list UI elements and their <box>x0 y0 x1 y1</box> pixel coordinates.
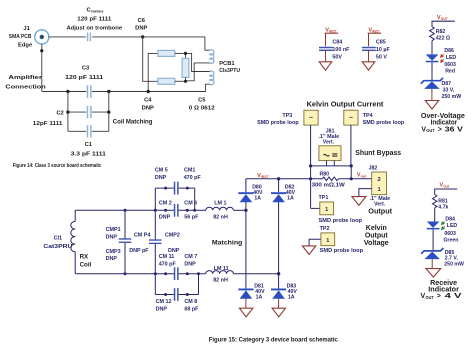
capacitor C3 120pF <box>65 66 104 98</box>
svg-text:36 V: 36 V <box>445 127 463 134</box>
svg-text:470 pF: 470 pF <box>159 261 177 267</box>
inductor CI1 RX coil <box>43 210 75 273</box>
svg-text:Coil Matching: Coil Matching <box>113 118 153 125</box>
label C4 DNP <box>142 98 154 112</box>
svg-text:120 pF 1111: 120 pF 1111 <box>65 75 104 81</box>
wire top junction crossover to lower winding <box>186 53 210 71</box>
svg-text:250 mW: 250 mW <box>442 94 462 100</box>
svg-text:C4: C4 <box>144 98 152 104</box>
svg-text:D87: D87 <box>442 81 452 87</box>
svg-text:50 V: 50 V <box>376 54 387 60</box>
label PCB1 Cls3PTU <box>219 61 240 74</box>
svg-text:D86: D86 <box>444 48 454 54</box>
wire J1 to Ctrombone <box>48 36 85 38</box>
capacitor Ctrombone 120pF adjust on trombone <box>67 7 123 41</box>
svg-text:–: – <box>309 115 313 122</box>
wire R81 to D84 <box>434 208 436 222</box>
capacitor C85 10uF 50V <box>362 39 390 61</box>
svg-text:DNP pF: DNP pF <box>129 248 149 254</box>
svg-text:C2: C2 <box>56 110 63 116</box>
svg-text:SMD probe loop: SMD probe loop <box>363 120 405 126</box>
svg-text:TP3: TP3 <box>282 113 292 119</box>
ground below C85 <box>362 62 375 70</box>
svg-text:Kelvin: Kelvin <box>366 225 387 232</box>
svg-text:Amplifier: Amplifier <box>8 75 43 81</box>
label Coil Matching <box>113 118 153 125</box>
svg-text:CM 8: CM 8 <box>184 299 197 305</box>
svg-text:DNP: DNP <box>155 175 167 181</box>
wire TP4 to shunt right node <box>350 125 352 166</box>
svg-text:J1: J1 <box>23 26 30 32</box>
svg-text:Green: Green <box>443 237 458 243</box>
caption Figure 14 <box>13 163 102 169</box>
wire R82 to D86 <box>431 41 433 55</box>
svg-text:DNP: DNP <box>159 214 171 220</box>
svg-text:TP4: TP4 <box>363 113 373 119</box>
wire C2/C1 left leg <box>67 92 69 132</box>
diode D86 LED 0603 Red <box>426 48 457 75</box>
svg-text:R82: R82 <box>436 29 446 35</box>
svg-text:C84: C84 <box>332 39 342 45</box>
svg-text:Edge: Edge <box>18 42 33 48</box>
wire D86 to D87 <box>431 62 433 80</box>
svg-text:RECT: RECT <box>261 175 269 179</box>
wire rx top <box>75 209 206 211</box>
svg-text:>: > <box>438 127 442 134</box>
svg-text:CM P4: CM P4 <box>134 232 150 238</box>
junction rail C4 <box>147 90 150 93</box>
svg-text:out: out <box>444 185 450 189</box>
svg-text:1: 1 <box>325 207 328 213</box>
svg-text:DNP: DNP <box>156 307 168 313</box>
testpoint TP2 SMD probe loop <box>302 226 363 255</box>
wire C2/C1 right leg <box>108 92 110 132</box>
label Kelvin Output Voltage <box>364 225 389 247</box>
svg-text:J82: J82 <box>369 165 378 171</box>
label Receive Indicator <box>421 280 463 300</box>
wire TP3 to shunt left node <box>310 125 312 166</box>
label Over-Voltage Indicator <box>421 113 465 134</box>
connector J82 output header <box>369 165 391 207</box>
svg-text:DNP: DNP <box>106 234 118 240</box>
resistor balun top <box>158 50 186 56</box>
wire rx bottom after LM11 <box>233 273 278 275</box>
svg-text:DNP: DNP <box>135 26 147 32</box>
svg-text:300 mΩ,1W: 300 mΩ,1W <box>312 183 345 189</box>
wire upper winding bottom crossover <box>186 63 210 81</box>
svg-text:1A: 1A <box>254 195 261 201</box>
svg-text:4.7k: 4.7k <box>438 205 448 211</box>
wire C6 node down to lower balun resistor <box>143 37 158 81</box>
svg-text:LED: LED <box>447 223 458 229</box>
junction balun bottom <box>184 80 187 83</box>
junction top wire to D80/D81 <box>244 209 247 212</box>
svg-text:68 pF: 68 pF <box>184 307 199 313</box>
svg-text:Red: Red <box>445 69 455 75</box>
svg-text:D84: D84 <box>445 217 455 223</box>
testpoint TP1 SMD probe loop <box>311 179 363 224</box>
capacitor C2 12pF rung <box>33 106 111 127</box>
capacitor CM12/CM8 lower rung <box>155 274 199 313</box>
capacitor CM11/CM7 on bottom wire <box>159 254 198 280</box>
svg-text:Output: Output <box>368 208 392 215</box>
diode D82 40V 1A <box>271 177 296 274</box>
svg-text:CI1: CI1 <box>54 236 62 242</box>
svg-text:250 mW: 250 mW <box>444 262 464 268</box>
svg-text:CM 2: CM 2 <box>159 200 172 206</box>
svg-text:out: out <box>361 174 367 178</box>
svg-text:422 Ω: 422 Ω <box>436 35 450 41</box>
svg-text:RX: RX <box>80 253 89 260</box>
svg-text:Voltage: Voltage <box>364 240 389 247</box>
svg-text:C5: C5 <box>198 98 206 104</box>
svg-text:LM 11: LM 11 <box>214 266 229 272</box>
svg-text:1A: 1A <box>256 295 263 301</box>
svg-text:Cat3PRU: Cat3PRU <box>43 244 72 250</box>
svg-text:Vert.: Vert. <box>374 201 386 207</box>
svg-text:100 nF: 100 nF <box>332 47 350 53</box>
svg-text:OUT: OUT <box>426 128 435 133</box>
svg-text:Cls3PTU: Cls3PTU <box>219 68 240 74</box>
svg-text:C85: C85 <box>376 39 386 45</box>
svg-text:OUT: OUT <box>441 17 448 21</box>
wire J82 pin1 to ground <box>352 189 372 206</box>
svg-text:–: – <box>349 115 353 122</box>
svg-text:Connection: Connection <box>5 84 46 90</box>
svg-text:Vert.: Vert. <box>323 139 335 145</box>
label Amplifier Connection <box>5 75 46 91</box>
svg-text:Kelvin Output Current: Kelvin Output Current <box>307 102 384 109</box>
resistor R82 422 Ohm <box>430 27 450 42</box>
svg-text:Output: Output <box>365 233 389 240</box>
svg-text:12pF 1111: 12pF 1111 <box>33 121 63 127</box>
svg-text:Coil: Coil <box>80 262 92 269</box>
svg-text:10 µF: 10 µF <box>376 47 391 53</box>
ground below C84 <box>319 62 332 70</box>
testpoint TP4 SMD probe loop <box>344 110 405 126</box>
svg-text:DNP: DNP <box>106 256 118 262</box>
svg-text:SMD probe loop: SMD probe loop <box>320 248 364 254</box>
diode D81 40V 1A <box>238 210 265 300</box>
junction bottom wire to D82/D83 <box>277 272 280 275</box>
connector J1 (SMA PCB edge) <box>9 26 49 48</box>
zener D85 2.7V 250mW <box>421 248 464 268</box>
svg-text:LED: LED <box>446 55 457 61</box>
svg-text:82 nH: 82 nH <box>213 214 228 220</box>
svg-text:PCB1: PCB1 <box>219 61 235 67</box>
svg-text:SMA PCB: SMA PCB <box>9 34 32 40</box>
svg-text:CMP3: CMP3 <box>106 249 121 255</box>
resistor balun vertical <box>182 53 189 81</box>
svg-text:0603: 0603 <box>444 62 456 68</box>
wire C4 branch vertical <box>148 53 158 91</box>
svg-text:Shunt Bypass: Shunt Bypass <box>355 150 401 157</box>
connector J81 shunt bypass header <box>318 128 341 166</box>
junction rail left of C2 network <box>66 90 69 93</box>
wire rx top after LM1 <box>233 209 246 211</box>
svg-text:SMD probe loop: SMD probe loop <box>319 218 363 224</box>
svg-text:CM 5: CM 5 <box>155 167 168 173</box>
main rail with C3 <box>42 91 206 93</box>
wire C6 node to coil PCB1 top <box>143 37 210 50</box>
label Kelvin Output Current <box>307 102 384 109</box>
svg-text:DNP: DNP <box>168 248 180 254</box>
capacitor C1 3.3pF rung <box>68 125 109 157</box>
svg-text:CM1: CM1 <box>184 167 195 173</box>
coil PCB1 upper winding <box>210 50 214 64</box>
svg-text:0603: 0603 <box>444 231 456 237</box>
svg-text:trombone: trombone <box>91 10 103 14</box>
node C6 DNP junction <box>135 18 147 38</box>
inductor LM11 82nH <box>206 266 234 283</box>
svg-text:OUT: OUT <box>425 295 434 300</box>
wire Ctrombone to node C6 <box>92 36 143 38</box>
label RX Coil <box>80 253 92 268</box>
svg-text:C1: C1 <box>85 142 93 148</box>
svg-text:2: 2 <box>377 177 380 183</box>
svg-text:120 pF 1111: 120 pF 1111 <box>77 17 112 23</box>
node Vrect rail <box>246 173 372 179</box>
svg-text:0 Ω 0612: 0 Ω 0612 <box>189 105 215 111</box>
ground over-voltage <box>425 89 438 109</box>
capacitor CM2/CM6 on top wire <box>159 200 199 220</box>
svg-text:1A: 1A <box>287 195 294 201</box>
svg-text:CMP2: CMP2 <box>165 232 180 238</box>
net Vout label at J82 <box>357 172 367 178</box>
svg-text:56 pF: 56 pF <box>184 214 199 220</box>
svg-text:50V: 50V <box>332 54 342 60</box>
svg-text:CMP1: CMP1 <box>106 227 121 233</box>
capacitor CMP1/CMP3 branch <box>106 209 132 275</box>
junction top wire dots <box>164 209 196 212</box>
wire J1 down to main rail <box>41 44 43 92</box>
svg-text:DNP: DNP <box>184 261 196 267</box>
caption Figure 15 <box>209 336 338 343</box>
junction below J1 <box>40 49 43 52</box>
junction rail right of C2 network <box>107 90 110 93</box>
svg-text:SMD probe loop: SMD probe loop <box>257 120 299 126</box>
net Vout flag over-voltage <box>432 15 455 27</box>
svg-text:CM 7: CM 7 <box>184 254 197 260</box>
net Vrect flag for C84 <box>325 27 339 46</box>
diode D84 LED 0603 Green <box>427 217 459 244</box>
capacitor CMP4/CMP2 branch <box>129 188 180 294</box>
svg-text:4 V: 4 V <box>445 293 462 300</box>
svg-text:LM 1: LM 1 <box>214 201 226 207</box>
ground below D83 <box>272 298 285 317</box>
svg-text:470 pF: 470 pF <box>184 175 202 181</box>
ground below D81 <box>239 298 252 317</box>
svg-text:Figure 14: Class 3 source boar: Figure 14: Class 3 source board schemati… <box>13 163 102 169</box>
diode D83 40V 1A <box>271 274 297 301</box>
net Vout flag receive <box>434 183 457 195</box>
label Output <box>368 208 392 215</box>
svg-text:TP1: TP1 <box>319 195 329 201</box>
svg-text:Figure 15: Category 3 device b: Figure 15: Category 3 device board schem… <box>209 336 338 343</box>
wire rx bottom <box>75 273 206 275</box>
svg-text:1: 1 <box>326 238 329 244</box>
svg-text:33 V,: 33 V, <box>443 87 455 93</box>
svg-text:DNP: DNP <box>142 105 154 111</box>
svg-text:CM 11: CM 11 <box>159 254 175 260</box>
svg-text:R80: R80 <box>320 172 330 178</box>
net Vrect flag for C85 <box>368 27 382 46</box>
svg-text:C3: C3 <box>82 66 90 72</box>
diode D80 40V 1A <box>238 179 263 211</box>
resistor R81 4.7k <box>433 195 449 211</box>
svg-text:CM 12: CM 12 <box>156 299 172 305</box>
zener D87 33V 250mW <box>421 78 461 100</box>
svg-text:Matching: Matching <box>212 239 242 246</box>
ground receive <box>426 259 441 277</box>
wire shunt bypass top <box>309 164 353 180</box>
svg-text:Adjust on trombone: Adjust on trombone <box>67 25 123 31</box>
svg-text:3.3 pF 1111: 3.3 pF 1111 <box>71 151 107 157</box>
svg-text:TP2: TP2 <box>320 226 330 232</box>
coil PCB1 lower winding <box>210 71 214 85</box>
capacitor CM5/CM1 upper rung <box>155 167 202 210</box>
svg-text:82 nH: 82 nH <box>213 277 228 283</box>
resistor R80 300mOhm 1W <box>312 172 345 189</box>
svg-text:C6: C6 <box>138 18 146 24</box>
svg-text:1A: 1A <box>288 295 295 301</box>
svg-text:>: > <box>437 293 441 300</box>
label Shunt Bypass <box>355 150 401 157</box>
junction balun top <box>184 52 187 55</box>
testpoint TP3 SMD probe loop <box>257 110 318 126</box>
wire lower winding to C5 rail <box>206 84 210 91</box>
label Matching <box>212 239 242 246</box>
label C5 0 ohm 0612 <box>189 98 215 112</box>
svg-text:CM 6: CM 6 <box>184 200 197 206</box>
inductor LM1 82nH <box>206 201 234 221</box>
junction bottom wire dots <box>164 272 200 275</box>
resistor balun bottom <box>158 78 186 84</box>
wire D84 to D85 <box>432 229 434 250</box>
capacitor C84 100nF 50V <box>319 39 350 61</box>
